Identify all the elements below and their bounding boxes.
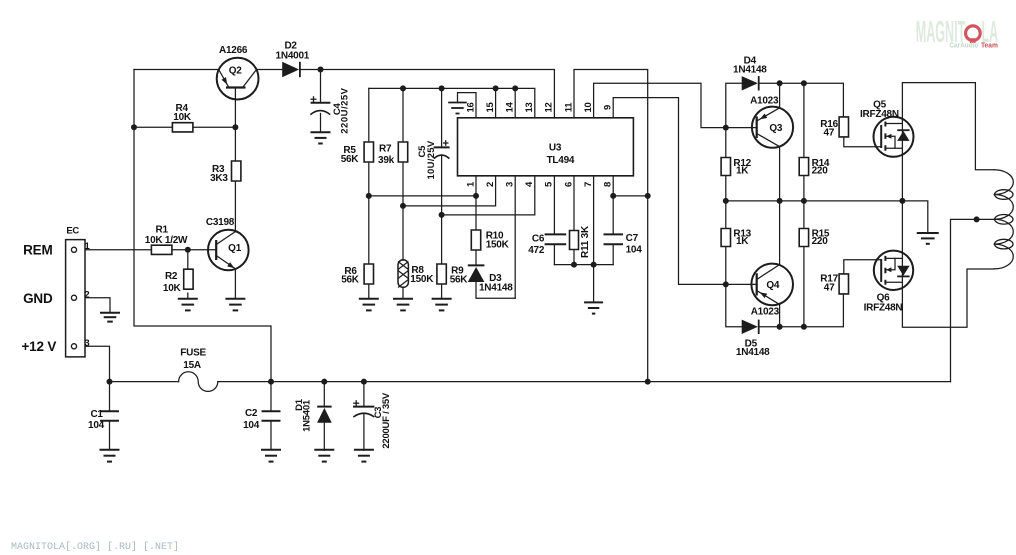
svg-text:10K 1/2W: 10K 1/2W	[145, 235, 188, 246]
svg-text:104: 104	[88, 420, 105, 431]
svg-text:10K: 10K	[173, 112, 192, 123]
svg-text:1N5401: 1N5401	[301, 399, 312, 432]
svg-text:1N4148: 1N4148	[479, 283, 513, 294]
svg-text:1N4148: 1N4148	[736, 347, 770, 358]
svg-text:1N4148: 1N4148	[733, 65, 767, 76]
svg-text:1K: 1K	[736, 236, 749, 247]
svg-text:REM: REM	[23, 243, 52, 258]
svg-text:A1023: A1023	[750, 96, 779, 107]
svg-text:1N4001: 1N4001	[276, 51, 310, 62]
svg-text:FUSE: FUSE	[180, 348, 206, 359]
svg-text:104: 104	[243, 420, 260, 431]
svg-text:12: 12	[544, 102, 555, 112]
svg-text:56K: 56K	[450, 274, 469, 285]
svg-text:2: 2	[485, 182, 496, 187]
svg-text:16: 16	[465, 102, 476, 112]
svg-text:GND: GND	[23, 291, 53, 306]
svg-text:9: 9	[603, 105, 614, 110]
svg-text:C6: C6	[532, 234, 545, 245]
svg-text:Q2: Q2	[229, 66, 243, 77]
svg-text:C2: C2	[245, 408, 258, 419]
svg-text:R2: R2	[165, 271, 178, 282]
svg-text:A1023: A1023	[751, 306, 780, 317]
svg-text:150K: 150K	[486, 240, 510, 251]
svg-text:Team: Team	[981, 42, 998, 49]
svg-text:Q1: Q1	[228, 243, 242, 254]
svg-text:15: 15	[485, 102, 496, 113]
svg-text:47: 47	[824, 128, 835, 139]
svg-text:11: 11	[563, 102, 574, 113]
svg-text:2200UF / 35V: 2200UF / 35V	[381, 392, 392, 449]
svg-text:EC: EC	[66, 226, 79, 237]
svg-text:R11 3K: R11 3K	[580, 225, 591, 258]
svg-text:Q4: Q4	[766, 280, 780, 291]
svg-text:10U/25V: 10U/25V	[426, 140, 437, 179]
svg-text:472: 472	[528, 245, 545, 256]
svg-text:IRFZ48N: IRFZ48N	[860, 109, 899, 120]
svg-text:220: 220	[812, 236, 829, 247]
svg-text:56K: 56K	[341, 154, 360, 165]
svg-text:R7: R7	[379, 143, 392, 154]
svg-text:39k: 39k	[378, 155, 395, 166]
svg-text:14: 14	[505, 102, 516, 113]
svg-text:15A: 15A	[183, 360, 201, 371]
svg-text:220U/25V: 220U/25V	[340, 87, 351, 133]
svg-text:Q3: Q3	[769, 123, 783, 134]
svg-text:A1266: A1266	[219, 45, 248, 56]
svg-text:47: 47	[824, 283, 835, 294]
svg-text:C7: C7	[626, 233, 639, 244]
svg-text:10K: 10K	[163, 283, 182, 294]
svg-text:+12 V: +12 V	[21, 339, 56, 354]
svg-text:CarAudio: CarAudio	[949, 42, 978, 49]
svg-text:3K3: 3K3	[210, 173, 228, 184]
svg-text:7: 7	[583, 182, 594, 187]
svg-text:150K: 150K	[410, 274, 434, 285]
svg-text:C3198: C3198	[206, 217, 235, 228]
svg-text:MAGNITOLA[.ORG] [.RU] [.NET]: MAGNITOLA[.ORG] [.RU] [.NET]	[11, 541, 179, 553]
svg-text:104: 104	[626, 245, 643, 256]
svg-text:U3: U3	[549, 142, 562, 153]
svg-text:8: 8	[603, 182, 614, 187]
svg-text:13: 13	[524, 102, 535, 112]
svg-text:R1: R1	[156, 224, 169, 235]
svg-text:56K: 56K	[341, 275, 360, 286]
svg-text:10: 10	[583, 102, 594, 112]
svg-text:C1: C1	[90, 409, 103, 420]
svg-text:2: 2	[84, 289, 89, 300]
svg-text:6: 6	[563, 182, 574, 187]
svg-text:3: 3	[84, 338, 89, 349]
svg-text:1K: 1K	[736, 166, 749, 177]
svg-text:3: 3	[505, 182, 516, 187]
svg-text:IRFZ48N: IRFZ48N	[864, 303, 903, 314]
svg-text:220: 220	[812, 166, 829, 177]
svg-text:TL494: TL494	[547, 155, 575, 166]
